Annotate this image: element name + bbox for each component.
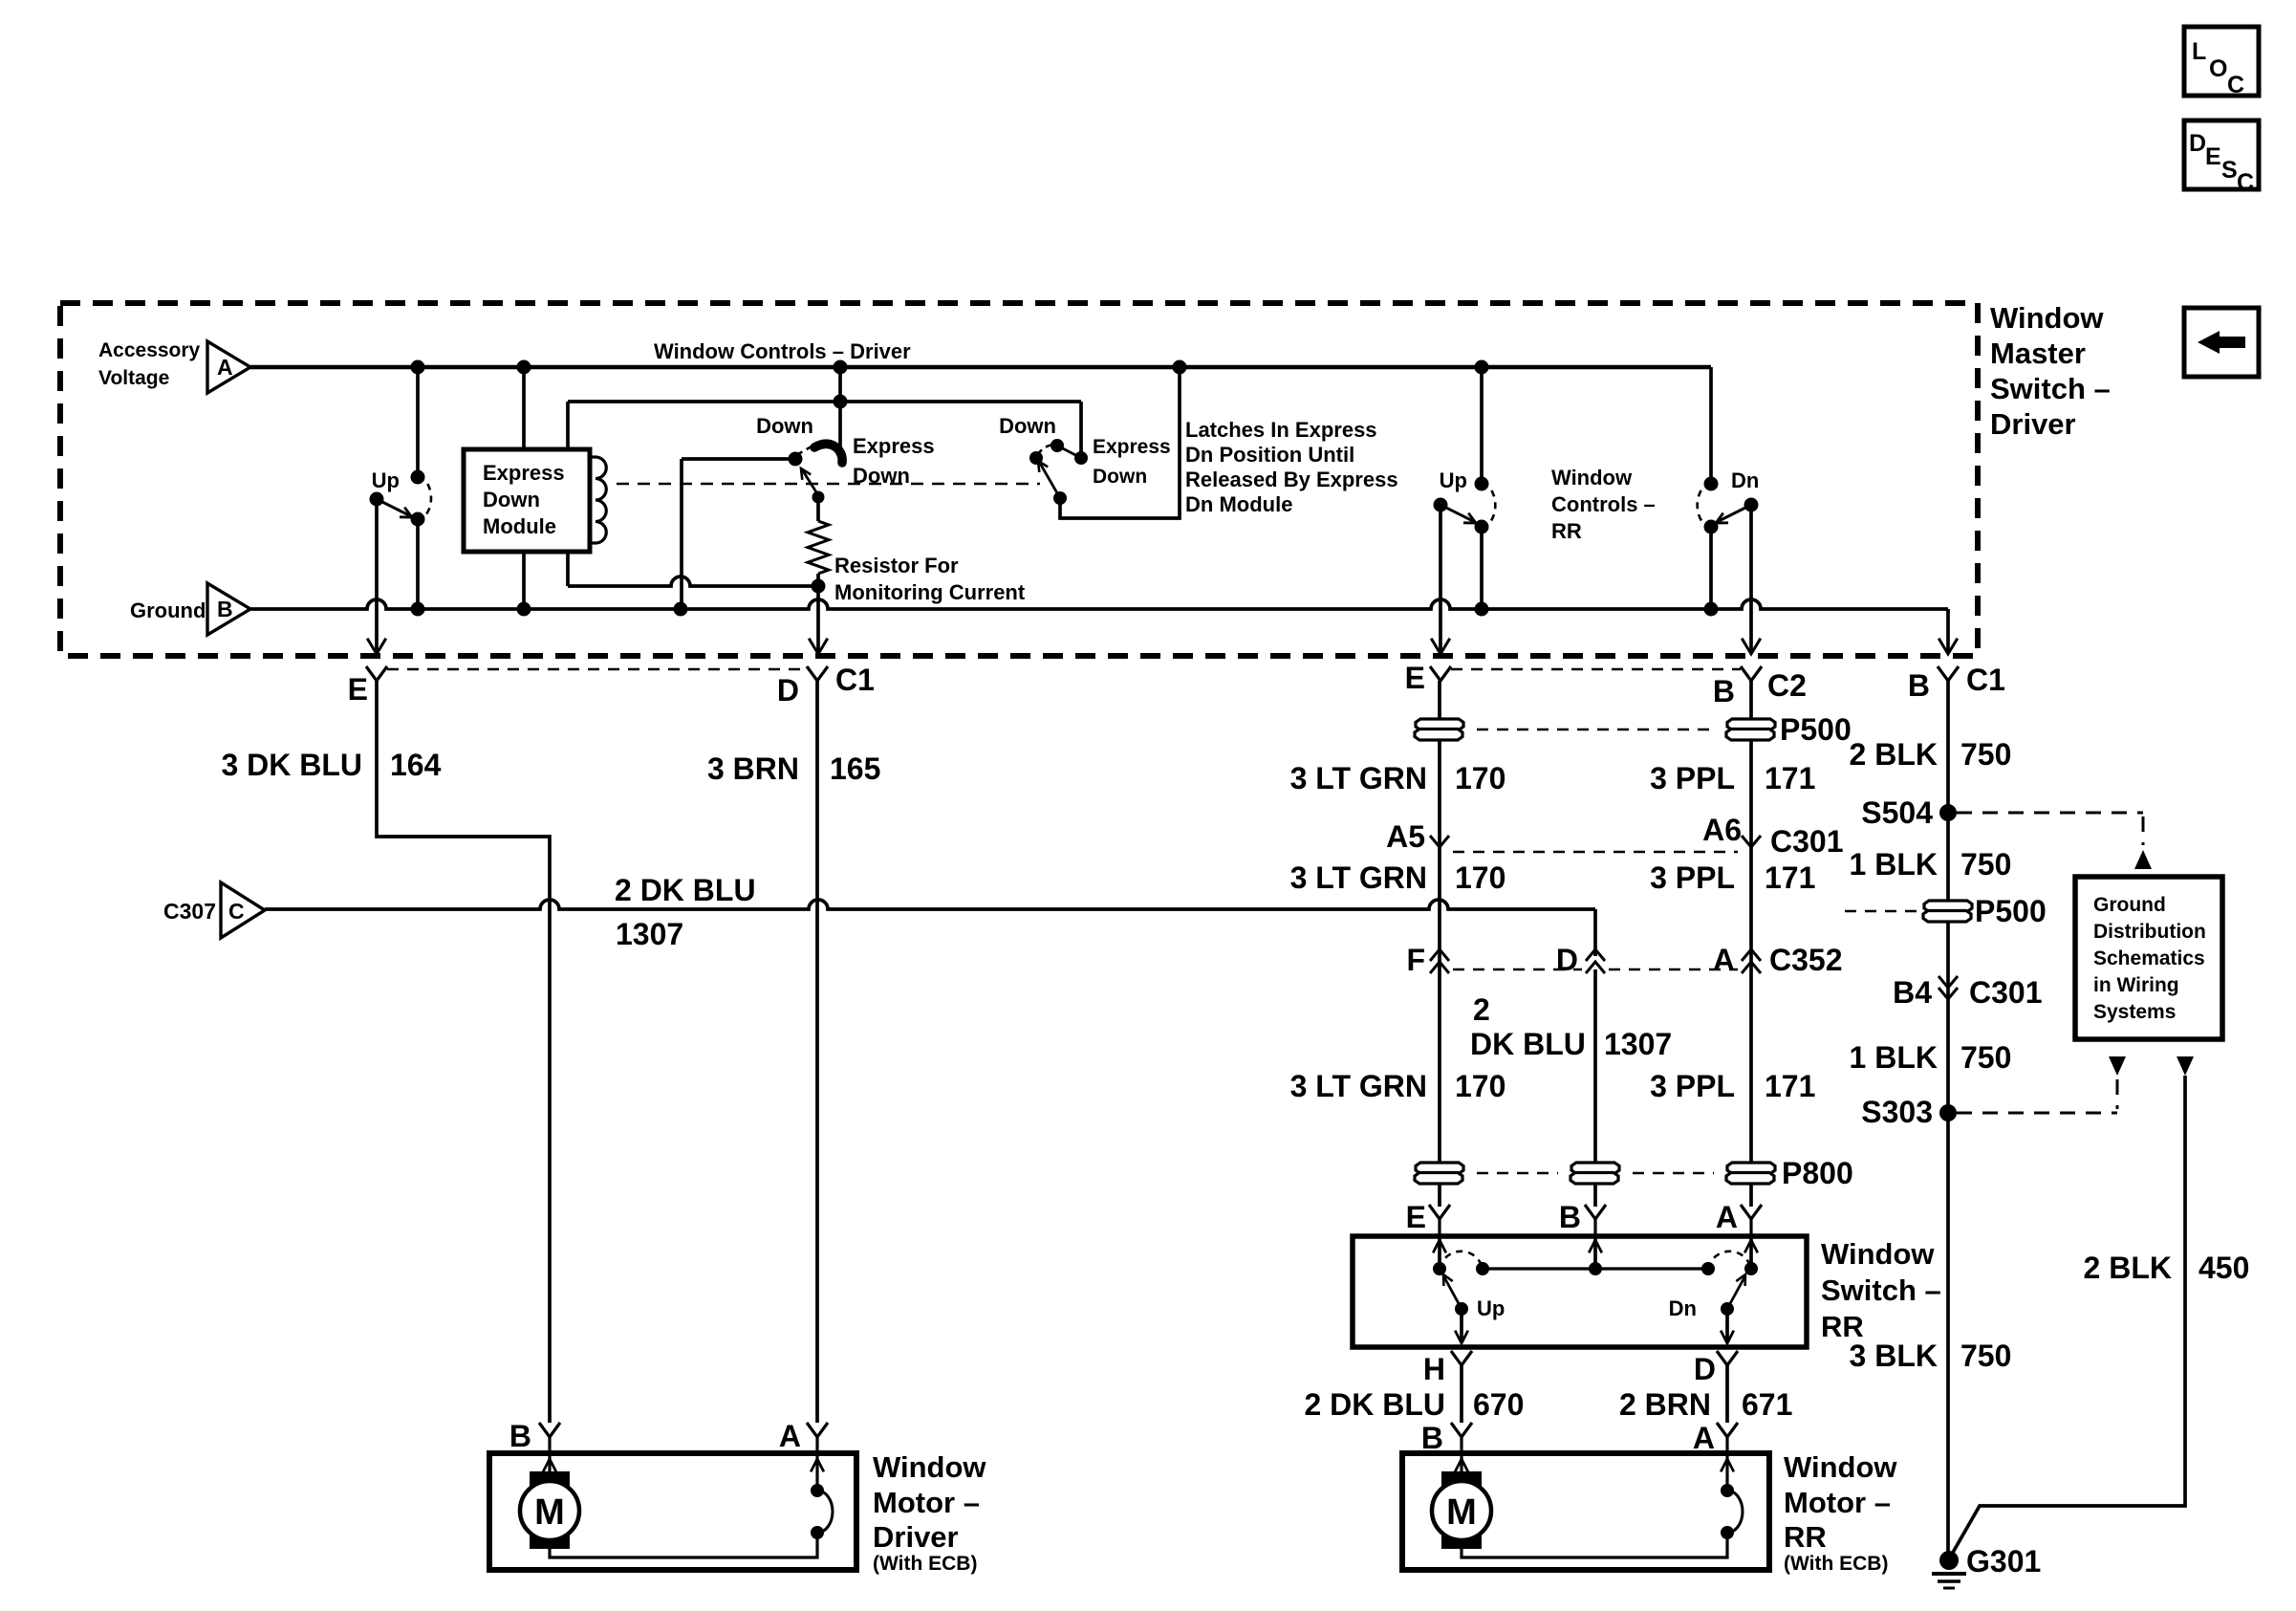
- pin B of C1 (right): [1908, 663, 2005, 703]
- svg-text:Motor –: Motor –: [873, 1486, 980, 1519]
- express down module: [464, 367, 606, 609]
- svg-text:C352: C352: [1769, 943, 1843, 977]
- svg-text:D: D: [777, 673, 799, 708]
- svg-text:B: B: [509, 1419, 531, 1453]
- wire 3 BRN 165: [815, 681, 819, 1423]
- svg-text:E: E: [1405, 661, 1425, 695]
- svg-text:2 DK BLU: 2 DK BLU: [615, 873, 756, 907]
- svg-text:2: 2: [1473, 992, 1490, 1027]
- svg-text:B: B: [1559, 1200, 1581, 1234]
- label 2 BLK 750: [1850, 737, 2012, 772]
- input flag C C307: [163, 882, 265, 938]
- svg-text:P500: P500: [1780, 712, 1852, 747]
- label window controls - rr: [1551, 466, 1656, 543]
- svg-text:2 BLK: 2 BLK: [1850, 737, 1938, 772]
- svg-text:B: B: [217, 597, 233, 621]
- svg-text:3 PPL: 3 PPL: [1650, 761, 1735, 795]
- svg-text:671: 671: [1742, 1387, 1792, 1422]
- svg-text:170: 170: [1455, 761, 1505, 795]
- svg-text:(With ECB): (With ECB): [873, 1553, 977, 1575]
- legend box DESC: [2184, 120, 2259, 196]
- svg-text:Express: Express: [1093, 436, 1171, 458]
- connector C1 dashed line: [387, 668, 807, 671]
- svg-text:Released By Express: Released By Express: [1185, 468, 1398, 491]
- svg-text:Ground: Ground: [130, 599, 206, 622]
- svg-text:Down: Down: [999, 414, 1056, 438]
- svg-text:P500: P500: [1975, 894, 2047, 928]
- pins E B A of window switch rr: [1406, 1200, 1762, 1236]
- connector P800 triple: [1415, 1156, 1853, 1190]
- pins H D of window switch rr: [1423, 1351, 1738, 1386]
- wire 1307 to C352 D: [1593, 909, 1597, 956]
- svg-text:Down: Down: [853, 464, 910, 488]
- svg-text:S: S: [2221, 157, 2238, 184]
- wire 2 DK BLU 670: [1460, 1365, 1463, 1423]
- switch express down latch contact: [999, 402, 1171, 505]
- svg-text:C307: C307: [163, 899, 216, 924]
- svg-text:Up: Up: [1477, 1296, 1505, 1320]
- svg-text:Dn: Dn: [1669, 1296, 1697, 1320]
- dashed link S303 to ground distribution box: [1957, 1056, 2126, 1113]
- connector C301 pins A5 A6: [1386, 813, 1843, 859]
- wire 1307 C352 D to switch B: [1593, 969, 1597, 1207]
- svg-text:DK BLU: DK BLU: [1470, 1027, 1586, 1061]
- wire 3 DK BLU 164: [377, 681, 550, 1423]
- legend box back-arrow: [2184, 308, 2259, 377]
- label 3 LT GRN 170 (3): [1290, 1069, 1506, 1103]
- power flag A accessory voltage: [98, 339, 250, 393]
- svg-text:C301: C301: [1969, 975, 2043, 1010]
- wire 3 LT GRN 170 (C2 E to switch E): [1438, 681, 1441, 1207]
- svg-text:C1: C1: [1966, 663, 2005, 697]
- connector P500 (right): [1845, 894, 2047, 928]
- svg-text:3 PPL: 3 PPL: [1650, 860, 1735, 895]
- svg-text:171: 171: [1765, 761, 1815, 795]
- svg-text:B: B: [1713, 674, 1735, 708]
- pins B A of window motor rr: [1421, 1421, 1738, 1455]
- label window controls - driver: [654, 339, 911, 363]
- svg-text:450: 450: [2199, 1251, 2249, 1285]
- svg-text:3 LT GRN: 3 LT GRN: [1290, 1069, 1427, 1103]
- svg-text:Systems: Systems: [2093, 1001, 2176, 1023]
- wire resistor to D pin: [809, 586, 828, 654]
- svg-text:Down: Down: [483, 488, 540, 512]
- label 1 BLK 750 (lower): [1850, 1040, 2012, 1075]
- svg-text:2 BRN: 2 BRN: [1619, 1387, 1711, 1422]
- svg-text:3 BLK: 3 BLK: [1850, 1339, 1938, 1373]
- svg-text:Schematics: Schematics: [2093, 947, 2205, 969]
- svg-text:Distribution: Distribution: [2093, 921, 2206, 943]
- window motor - rr (with ECB): [1402, 1437, 1769, 1570]
- label 2 DK BLU 670: [1304, 1387, 1524, 1422]
- label 3 PPL 171 (3): [1650, 1069, 1815, 1103]
- ground distribution schematics reference box: [2075, 877, 2222, 1039]
- legend box LOC: [2184, 27, 2259, 98]
- svg-text:Down: Down: [756, 414, 813, 438]
- svg-text:171: 171: [1765, 860, 1815, 895]
- svg-text:Window: Window: [873, 1450, 986, 1484]
- label window master switch - driver: [1990, 301, 2111, 441]
- pin E of C1: [348, 666, 387, 707]
- svg-text:Window: Window: [1990, 301, 2104, 335]
- label 3 LT GRN 170 (2): [1290, 860, 1506, 895]
- label 3 LT GRN 170 (1): [1290, 761, 1506, 795]
- svg-text:1 BLK: 1 BLK: [1850, 1040, 1938, 1075]
- svg-text:Latches In Express: Latches In Express: [1185, 418, 1377, 442]
- label 3 BRN 165: [707, 751, 880, 786]
- svg-text:E: E: [348, 672, 368, 707]
- svg-text:1 BLK: 1 BLK: [1850, 847, 1938, 882]
- svg-text:165: 165: [830, 751, 880, 786]
- svg-text:E: E: [1406, 1200, 1426, 1234]
- wire express pivot to ground: [682, 459, 795, 609]
- svg-text:3 LT GRN: 3 LT GRN: [1290, 761, 1427, 795]
- svg-text:RR: RR: [1784, 1520, 1827, 1554]
- svg-text:Driver: Driver: [1990, 407, 2076, 441]
- svg-text:Express: Express: [853, 434, 935, 458]
- wire 2 DK BLU 1307 horizontal: [265, 900, 1595, 909]
- wire BLK 750 (C1 B to G301): [1946, 681, 1950, 1560]
- svg-text:H: H: [1423, 1352, 1445, 1386]
- wire accessory bus (A): [250, 365, 1711, 369]
- ground G301: [1932, 1544, 2041, 1588]
- wire ground bus (B): [250, 599, 1948, 609]
- svg-text:Express: Express: [483, 461, 565, 485]
- svg-text:Window: Window: [1821, 1237, 1935, 1271]
- connector P500 pair: [1415, 712, 1852, 747]
- svg-text:C2: C2: [1767, 668, 1807, 703]
- switch window up - rr: [1434, 367, 1496, 609]
- svg-text:M: M: [534, 1492, 565, 1533]
- pin E of C2: [1405, 661, 1451, 695]
- svg-text:L: L: [2192, 38, 2206, 65]
- svg-text:1307: 1307: [1604, 1027, 1672, 1061]
- svg-text:670: 670: [1473, 1387, 1524, 1422]
- svg-text:A: A: [1713, 943, 1735, 977]
- svg-text:3 DK BLU: 3 DK BLU: [221, 748, 362, 782]
- wire express latch return loop: [1060, 367, 1180, 518]
- svg-text:Controls –: Controls –: [1551, 492, 1656, 516]
- svg-text:S504: S504: [1861, 795, 1933, 830]
- connector C352 pins F D A: [1406, 943, 1842, 977]
- svg-text:1307: 1307: [616, 917, 683, 951]
- pin B of C2: [1713, 666, 1807, 708]
- window master switch - driver outline (dashed box): [60, 303, 1978, 656]
- svg-text:A: A: [1716, 1200, 1738, 1234]
- svg-text:164: 164: [390, 748, 442, 782]
- svg-text:170: 170: [1455, 1069, 1505, 1103]
- wire ground bus to C1 B pin: [1939, 609, 1958, 654]
- svg-text:2 DK BLU: 2 DK BLU: [1304, 1387, 1445, 1422]
- svg-text:3 LT GRN: 3 LT GRN: [1290, 860, 1427, 895]
- svg-text:Accessory: Accessory: [98, 339, 201, 361]
- wire 2 BLK 450: [1950, 1056, 2194, 1557]
- svg-text:Module: Module: [483, 514, 556, 538]
- splice S303: [1861, 1095, 1957, 1129]
- ground flag B: [130, 583, 250, 635]
- pin D of C1: [777, 663, 875, 708]
- svg-text:Voltage: Voltage: [98, 367, 169, 389]
- junction dots on accessory bus: [411, 360, 1489, 375]
- label 2 BRN 671: [1619, 1387, 1792, 1422]
- svg-text:171: 171: [1765, 1069, 1815, 1103]
- svg-text:A6: A6: [1702, 813, 1742, 847]
- svg-text:M: M: [1446, 1492, 1477, 1533]
- dashed link S504 to ground distribution box: [1957, 813, 2152, 869]
- svg-text:750: 750: [1960, 737, 2011, 772]
- svg-text:A5: A5: [1386, 819, 1425, 854]
- svg-text:750: 750: [1960, 1339, 2011, 1373]
- wire 2 BRN 671: [1725, 1365, 1729, 1423]
- svg-text:Dn Position Until: Dn Position Until: [1185, 443, 1354, 467]
- wire module top feed: [568, 395, 1081, 450]
- wire driver up pivot to E pin: [367, 499, 386, 654]
- svg-text:Window Controls – Driver: Window Controls – Driver: [654, 339, 911, 363]
- junction dots on ground bus: [411, 602, 1719, 617]
- label 3 PPL 171 (1): [1650, 761, 1815, 795]
- svg-text:B: B: [1908, 668, 1930, 703]
- svg-text:Switch –: Switch –: [1821, 1274, 1941, 1307]
- label window motor - rr: [1784, 1450, 1897, 1575]
- window switch rr internals (up dn contacts): [1433, 1236, 1758, 1343]
- svg-text:3 BRN: 3 BRN: [707, 751, 799, 786]
- svg-text:750: 750: [1960, 847, 2011, 882]
- svg-text:S303: S303: [1861, 1095, 1933, 1129]
- svg-text:O: O: [2209, 55, 2227, 82]
- svg-text:E: E: [2205, 143, 2221, 170]
- svg-text:170: 170: [1455, 860, 1505, 895]
- svg-text:Window: Window: [1784, 1450, 1897, 1484]
- svg-text:Up: Up: [372, 468, 400, 492]
- wire rr dn pivot to B pin C2: [1742, 505, 1761, 654]
- svg-text:Switch –: Switch –: [1990, 372, 2111, 405]
- connector C2 dashed line: [1451, 668, 1741, 671]
- svg-text:G301: G301: [1966, 1544, 2041, 1578]
- svg-text:Monitoring Current: Monitoring Current: [834, 580, 1026, 604]
- svg-text:D: D: [1556, 943, 1578, 977]
- svg-text:Driver: Driver: [873, 1520, 959, 1554]
- svg-text:750: 750: [1960, 1040, 2011, 1075]
- label 3 PPL 171 (2): [1650, 860, 1815, 895]
- svg-text:A: A: [1693, 1421, 1715, 1455]
- svg-text:(With ECB): (With ECB): [1784, 1553, 1888, 1575]
- svg-text:C1: C1: [835, 663, 875, 697]
- svg-text:C: C: [228, 899, 245, 924]
- label window switch - rr: [1821, 1237, 1941, 1343]
- resistor for monitoring current: [808, 497, 1026, 604]
- svg-text:C301: C301: [1770, 824, 1844, 859]
- svg-text:A: A: [217, 355, 233, 380]
- svg-text:C: C: [2227, 72, 2244, 98]
- svg-text:2 BLK: 2 BLK: [2084, 1251, 2172, 1285]
- label 2 DK BLU 1307: [615, 873, 756, 951]
- svg-text:P800: P800: [1782, 1156, 1853, 1190]
- svg-text:C: C: [2237, 169, 2254, 196]
- svg-text:Resistor For: Resistor For: [834, 554, 959, 577]
- label 3 DK BLU 164: [221, 748, 441, 782]
- svg-text:Master: Master: [1990, 337, 2086, 370]
- svg-text:D: D: [1694, 1352, 1716, 1386]
- svg-text:A: A: [779, 1419, 801, 1453]
- pins B A of window motor driver: [509, 1419, 828, 1453]
- splice S504: [1861, 795, 1957, 830]
- svg-text:Ground: Ground: [2093, 894, 2166, 916]
- label 1 BLK 750 (upper): [1850, 847, 2012, 882]
- switch window up - driver: [370, 367, 432, 609]
- svg-text:B: B: [1421, 1421, 1443, 1455]
- connector C301 pin B4: [1893, 975, 2042, 1010]
- wire 3 PPL 171 (C2 B to switch A): [1749, 681, 1753, 1207]
- label 2 BLK 450: [2084, 1251, 2250, 1285]
- svg-text:3 PPL: 3 PPL: [1650, 1069, 1735, 1103]
- wire module bottom to resistor: [568, 552, 826, 594]
- window switch - rr box: [1353, 1236, 1807, 1347]
- label 2 DK BLU 1307 (vertical run): [1470, 992, 1672, 1061]
- svg-text:Down: Down: [1093, 466, 1147, 488]
- svg-text:B4: B4: [1893, 975, 1932, 1010]
- switch window dn - rr: [1698, 367, 1760, 609]
- svg-text:Dn: Dn: [1731, 468, 1759, 492]
- svg-text:Motor –: Motor –: [1784, 1486, 1891, 1519]
- svg-text:Up: Up: [1440, 468, 1467, 492]
- switch express down - driver (latched): [756, 367, 935, 504]
- label 3 BLK 750: [1850, 1339, 2012, 1373]
- note latches in express dn position: [1185, 418, 1398, 516]
- svg-text:Window: Window: [1551, 466, 1633, 490]
- dashed mechanical link module to express switch: [617, 483, 1040, 486]
- svg-text:F: F: [1406, 943, 1425, 977]
- window motor - driver (with ECB): [489, 1437, 856, 1570]
- label window motor - driver: [873, 1450, 986, 1575]
- svg-text:in Wiring: in Wiring: [2093, 974, 2179, 996]
- wire rr up pivot to E pin C2: [1431, 505, 1450, 654]
- svg-text:D: D: [2189, 130, 2206, 157]
- svg-text:RR: RR: [1551, 519, 1582, 543]
- svg-text:Dn Module: Dn Module: [1185, 492, 1292, 516]
